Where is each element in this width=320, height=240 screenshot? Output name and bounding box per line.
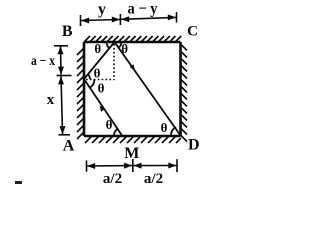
svg-text:θ: θ — [106, 117, 113, 132]
svg-text:θ: θ — [94, 41, 101, 56]
svg-text:x: x — [47, 92, 55, 108]
svg-text:a/2: a/2 — [144, 171, 163, 187]
svg-text:C: C — [187, 24, 198, 40]
svg-text:A: A — [63, 138, 75, 155]
svg-text:D: D — [188, 137, 200, 154]
svg-text:θ: θ — [98, 81, 105, 96]
svg-text:θ: θ — [161, 120, 168, 135]
svg-text:a − y: a − y — [128, 1, 158, 18]
svg-text:y: y — [98, 1, 106, 18]
svg-text:a − x: a − x — [31, 54, 55, 69]
svg-text:B: B — [62, 23, 73, 40]
svg-text:θ: θ — [94, 66, 101, 81]
svg-text:M: M — [124, 145, 139, 162]
svg-text:θ: θ — [121, 41, 128, 56]
svg-text:a/2: a/2 — [103, 171, 122, 187]
